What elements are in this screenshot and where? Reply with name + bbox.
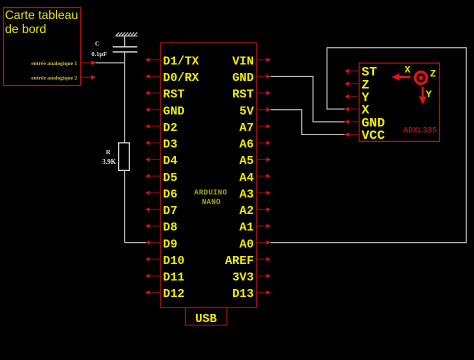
svg-text:A7: A7	[239, 121, 253, 135]
svg-text:R: R	[106, 149, 111, 156]
pin ADXL ST	[345, 65, 378, 80]
svg-text:VIN: VIN	[232, 55, 254, 69]
svg-text:5V: 5V	[239, 104, 254, 118]
subcircuit box Carte tableau de bord	[4, 8, 81, 86]
resistor R 3.9K	[102, 143, 129, 171]
svg-text:D12: D12	[163, 287, 185, 301]
pin A2	[239, 204, 270, 218]
USB connector	[185, 308, 226, 327]
right pins of arduino	[225, 55, 271, 302]
pin A0	[239, 237, 270, 251]
svg-text:Z: Z	[430, 69, 436, 80]
svg-text:A2: A2	[239, 204, 253, 218]
pin RST right	[232, 88, 271, 102]
svg-text:0.1µF: 0.1µF	[91, 51, 107, 58]
svg-text:D5: D5	[163, 171, 177, 185]
svg-text:Y: Y	[426, 90, 432, 101]
svg-text:D4: D4	[163, 154, 177, 168]
svg-text:VCC: VCC	[362, 128, 386, 143]
terminal entrée analogique 1	[31, 61, 96, 68]
pin D9	[145, 237, 177, 251]
pin GND left	[145, 104, 184, 118]
pin D8	[145, 221, 177, 235]
pin D11	[145, 271, 184, 285]
ADXL335 pins	[345, 65, 386, 144]
svg-text:3V3: 3V3	[232, 271, 254, 285]
left pins of arduino	[145, 55, 200, 302]
pin ADXL VCC	[345, 128, 386, 143]
ground	[116, 32, 138, 36]
svg-text:AREF: AREF	[225, 254, 254, 268]
svg-text:D11: D11	[163, 271, 185, 285]
pin 3V3	[232, 271, 271, 285]
wire resistor to pin D9	[125, 170, 146, 242]
svg-text:A3: A3	[239, 188, 253, 202]
pin D7	[145, 204, 177, 218]
svg-text:ADXL335: ADXL335	[403, 126, 437, 135]
pin D2	[145, 121, 177, 135]
svg-text:A0: A0	[239, 237, 253, 251]
svg-text:entrée analogique 2: entrée analogique 2	[31, 76, 77, 82]
wire entrée 1 to RC node	[96, 62, 126, 64]
pin ADXL X	[345, 103, 370, 118]
axis icon Z (out of plane)	[415, 69, 436, 83]
pin D12	[145, 287, 184, 301]
svg-text:X: X	[404, 66, 410, 77]
svg-text:C: C	[95, 41, 100, 48]
svg-text:de bord: de bord	[5, 22, 46, 36]
pin D13	[232, 287, 271, 301]
pin ADXL Y	[345, 90, 370, 105]
wire arduino 5V to ADXL VCC	[271, 110, 345, 135]
wire arduino GND to ADXL GND	[271, 76, 345, 121]
svg-text:GND: GND	[163, 104, 185, 118]
pin D5	[145, 171, 177, 185]
svg-text:RST: RST	[163, 88, 185, 102]
pin A5	[239, 154, 270, 168]
svg-text:ARDUINO: ARDUINO	[194, 190, 227, 198]
pin D6	[145, 188, 177, 202]
pin D10	[145, 254, 184, 268]
pin A3	[239, 188, 270, 202]
pin RST left	[145, 88, 184, 102]
IC body ARDUINO NANO	[160, 43, 256, 308]
module ADXL335 body	[359, 63, 439, 141]
svg-text:D1/TX: D1/TX	[163, 55, 200, 69]
pin A1	[239, 221, 270, 235]
pin 5V	[239, 104, 270, 118]
svg-text:A4: A4	[239, 171, 253, 185]
svg-text:D3: D3	[163, 138, 177, 152]
pin VIN	[232, 55, 271, 69]
pin A6	[239, 138, 270, 152]
svg-text:A6: A6	[239, 138, 253, 152]
pin ADXL Z	[345, 77, 370, 92]
svg-text:D0/RX: D0/RX	[163, 71, 200, 85]
svg-text:D6: D6	[163, 188, 177, 202]
pin D4	[145, 154, 177, 168]
svg-text:A1: A1	[239, 221, 253, 235]
svg-text:NANO: NANO	[202, 199, 221, 207]
svg-text:D13: D13	[232, 287, 254, 301]
svg-text:RST: RST	[232, 88, 254, 102]
svg-text:D8: D8	[163, 221, 177, 235]
svg-text:D9: D9	[163, 237, 177, 251]
svg-text:USB: USB	[195, 312, 217, 326]
svg-text:3.9K: 3.9K	[102, 159, 116, 166]
axis icon X arrow	[392, 66, 411, 81]
svg-text:D7: D7	[163, 204, 177, 218]
svg-text:D2: D2	[163, 121, 177, 135]
pin A4	[239, 171, 270, 185]
pin AREF	[225, 254, 271, 268]
svg-text:GND: GND	[232, 71, 254, 85]
axis icon Y arrow	[419, 87, 432, 105]
svg-text:A5: A5	[239, 154, 253, 168]
pin D1/TX	[145, 55, 200, 69]
pin ADXL GND	[345, 115, 386, 130]
wire ADXL X to arduino A0	[271, 48, 467, 243]
pin D0/RX	[145, 71, 200, 85]
pin A7	[239, 121, 270, 135]
pin GND right	[232, 71, 271, 85]
wire capacitor to resistor	[124, 52, 126, 143]
svg-text:D10: D10	[163, 254, 185, 268]
svg-text:entrée analogique 1: entrée analogique 1	[31, 61, 77, 67]
capacitor C 0.1µF	[91, 41, 137, 59]
wire ground to capacitor	[124, 36, 126, 47]
svg-text:Carte tableau: Carte tableau	[5, 8, 78, 22]
terminal entrée analogique 2	[31, 75, 96, 82]
pin D3	[145, 138, 177, 152]
